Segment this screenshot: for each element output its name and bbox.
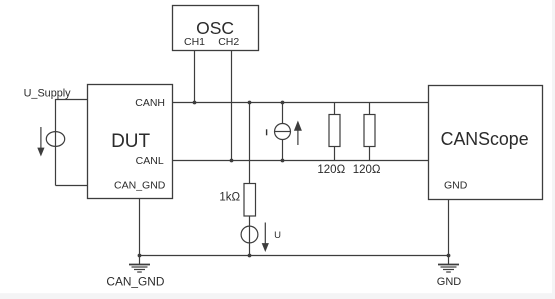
wire U_Supply bottom xyxy=(56,185,88,187)
wire R1 to CANL xyxy=(334,147,336,161)
node rail left xyxy=(138,254,142,258)
wire ground rail xyxy=(140,255,449,257)
node Isrc/CANH xyxy=(281,101,285,105)
ground GND xyxy=(438,265,459,273)
svg-text:CANL: CANL xyxy=(136,155,164,167)
source U_Supply xyxy=(46,132,64,147)
node U/rail xyxy=(248,254,252,258)
wire 1k resistor to ground rail xyxy=(249,216,251,256)
voltage source U xyxy=(241,226,258,243)
wire CH1 to CANH xyxy=(194,51,196,103)
label I xyxy=(266,129,268,135)
svg-text:CAN_GND: CAN_GND xyxy=(106,277,164,289)
svg-text:U: U xyxy=(274,230,281,241)
wire CANL rail xyxy=(173,160,429,162)
svg-text:GND: GND xyxy=(437,276,462,288)
node 1k/CANH xyxy=(248,101,252,105)
box U1 CANScope xyxy=(429,86,543,200)
box OSC xyxy=(173,6,259,51)
wire CANH rail xyxy=(173,102,429,104)
box DUT xyxy=(88,85,173,199)
node CH1/CANH xyxy=(193,101,197,105)
ground CAN_GND xyxy=(129,265,150,273)
wire CANH to current source xyxy=(282,103,284,124)
wire current source to CANL xyxy=(282,140,284,161)
arrow U down xyxy=(262,223,269,253)
svg-text:120Ω: 120Ω xyxy=(353,164,381,176)
wire CANH to 1k resistor xyxy=(249,103,251,184)
wire R2 to CANL xyxy=(369,147,371,161)
wire CH2 to CANL xyxy=(231,51,233,161)
node CH2/CANL xyxy=(230,159,234,163)
wire CANH to R2 xyxy=(369,103,371,115)
svg-text:120Ω: 120Ω xyxy=(317,164,345,176)
resistor R2 120Ohm xyxy=(364,115,375,147)
wire DUT CAN_GND down xyxy=(139,199,141,265)
svg-text:GND: GND xyxy=(444,179,468,191)
wire U_Supply top xyxy=(56,100,88,186)
node rail right xyxy=(447,254,451,258)
svg-text:CAN_GND: CAN_GND xyxy=(114,179,166,191)
svg-text:CANScope: CANScope xyxy=(441,129,529,149)
svg-text:DUT: DUT xyxy=(111,131,150,152)
arrow U_Supply down xyxy=(37,127,44,157)
svg-text:OSC: OSC xyxy=(196,18,234,38)
svg-text:1kΩ: 1kΩ xyxy=(219,192,240,204)
current source I xyxy=(275,124,291,140)
svg-text:CANH: CANH xyxy=(135,97,165,109)
svg-text:CH1: CH1 xyxy=(184,36,205,48)
svg-text:U_Supply: U_Supply xyxy=(24,88,71,100)
resistor R3 1kOhm xyxy=(244,184,256,217)
svg-text:CH2: CH2 xyxy=(218,36,239,48)
arrow I up xyxy=(294,121,302,146)
wire CANH to R1 xyxy=(334,103,336,115)
node Isrc/CANL xyxy=(281,159,285,163)
wire CANScope GND down xyxy=(448,200,450,265)
resistor R1 120Ohm xyxy=(329,115,340,147)
